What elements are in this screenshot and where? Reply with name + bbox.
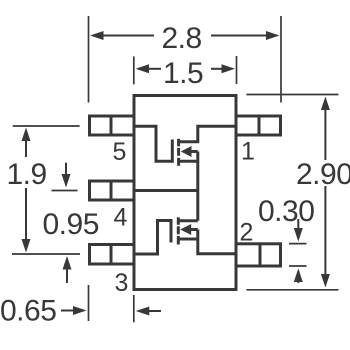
svg-text:2: 2 bbox=[240, 219, 254, 247]
dimension 0.30 arrows bbox=[294, 219, 303, 283]
wire Q1 drain to pin1 bbox=[179, 126, 236, 142]
transistor Q2 source stub bbox=[178, 238, 198, 241]
pin 2 bbox=[236, 244, 281, 266]
wire Q1 source / node to Q2 drain bbox=[196, 152, 199, 221]
dimension 2.90 extension lines bbox=[246, 95, 338, 290]
svg-text:0.30: 0.30 bbox=[258, 195, 314, 228]
svg-text:1.9: 1.9 bbox=[7, 158, 47, 191]
svg-text:0.95: 0.95 bbox=[43, 208, 99, 241]
value label 0.30 bbox=[258, 195, 314, 228]
value label 1.5 bbox=[163, 57, 203, 90]
svg-text:4: 4 bbox=[114, 204, 128, 232]
value label 0.95 bbox=[43, 208, 99, 241]
value label 1.9 bbox=[7, 158, 47, 191]
transistor Q2 body arrow bbox=[180, 224, 198, 235]
pin label 5 bbox=[113, 138, 127, 166]
transistor Q1 channel contacts bbox=[177, 139, 180, 166]
package body outline bbox=[134, 96, 236, 290]
dimension 0.65 arrows bbox=[61, 306, 161, 316]
svg-text:2.8: 2.8 bbox=[162, 22, 202, 55]
wire Q2 source to pin2 bbox=[198, 230, 236, 254]
svg-text:5: 5 bbox=[113, 138, 127, 166]
value label 2.8 bbox=[162, 22, 202, 55]
dimension 2.8 extension lines bbox=[89, 16, 282, 103]
pin 1 bbox=[236, 116, 281, 135]
wire pin4 to node bbox=[134, 189, 198, 192]
wire pin3 to Q2 gate bbox=[134, 221, 171, 255]
dimension 0.95 extension line upper bbox=[52, 190, 78, 192]
pin label 4 bbox=[114, 204, 128, 232]
dimension 1.5 extension lines bbox=[134, 56, 237, 84]
pin label 2 bbox=[240, 219, 254, 247]
transistor Q2 gate bar bbox=[170, 219, 173, 243]
dimension 1.9 extension lines bbox=[12, 126, 80, 254]
svg-text:1.5: 1.5 bbox=[163, 57, 203, 90]
pin label 1 bbox=[241, 138, 255, 166]
wire pin5 to Q1 gate bbox=[134, 126, 172, 161]
transistor Q2 drain stub bbox=[178, 219, 198, 222]
pin label 3 bbox=[115, 269, 129, 297]
dimension 2.90 arrows bbox=[321, 97, 330, 288]
transistor Q2 channel contacts bbox=[177, 217, 180, 244]
pin 3 bbox=[90, 245, 135, 265]
svg-text:3: 3 bbox=[115, 269, 129, 297]
transistor Q1 source stub bbox=[179, 160, 198, 163]
dimension 0.95 arrows bbox=[62, 163, 72, 283]
pin 5 bbox=[90, 116, 135, 135]
value label 0.65 bbox=[0, 295, 56, 328]
value label 2.90 bbox=[296, 158, 350, 191]
dimension 0.65 extension lines bbox=[89, 285, 134, 322]
transistor Q1 gate bar bbox=[171, 140, 174, 163]
dimension 1.9 arrows bbox=[22, 128, 31, 253]
dimension 2.8 arrows bbox=[90, 31, 280, 40]
pin 4 bbox=[90, 181, 135, 200]
dimension 1.5 arrows bbox=[136, 64, 236, 73]
transistor Q1 body arrow bbox=[181, 146, 198, 157]
svg-text:1: 1 bbox=[241, 138, 255, 166]
svg-text:0.65: 0.65 bbox=[0, 295, 56, 328]
dimension 0.30 extension lines bbox=[289, 244, 307, 266]
svg-text:2.90: 2.90 bbox=[296, 158, 350, 191]
